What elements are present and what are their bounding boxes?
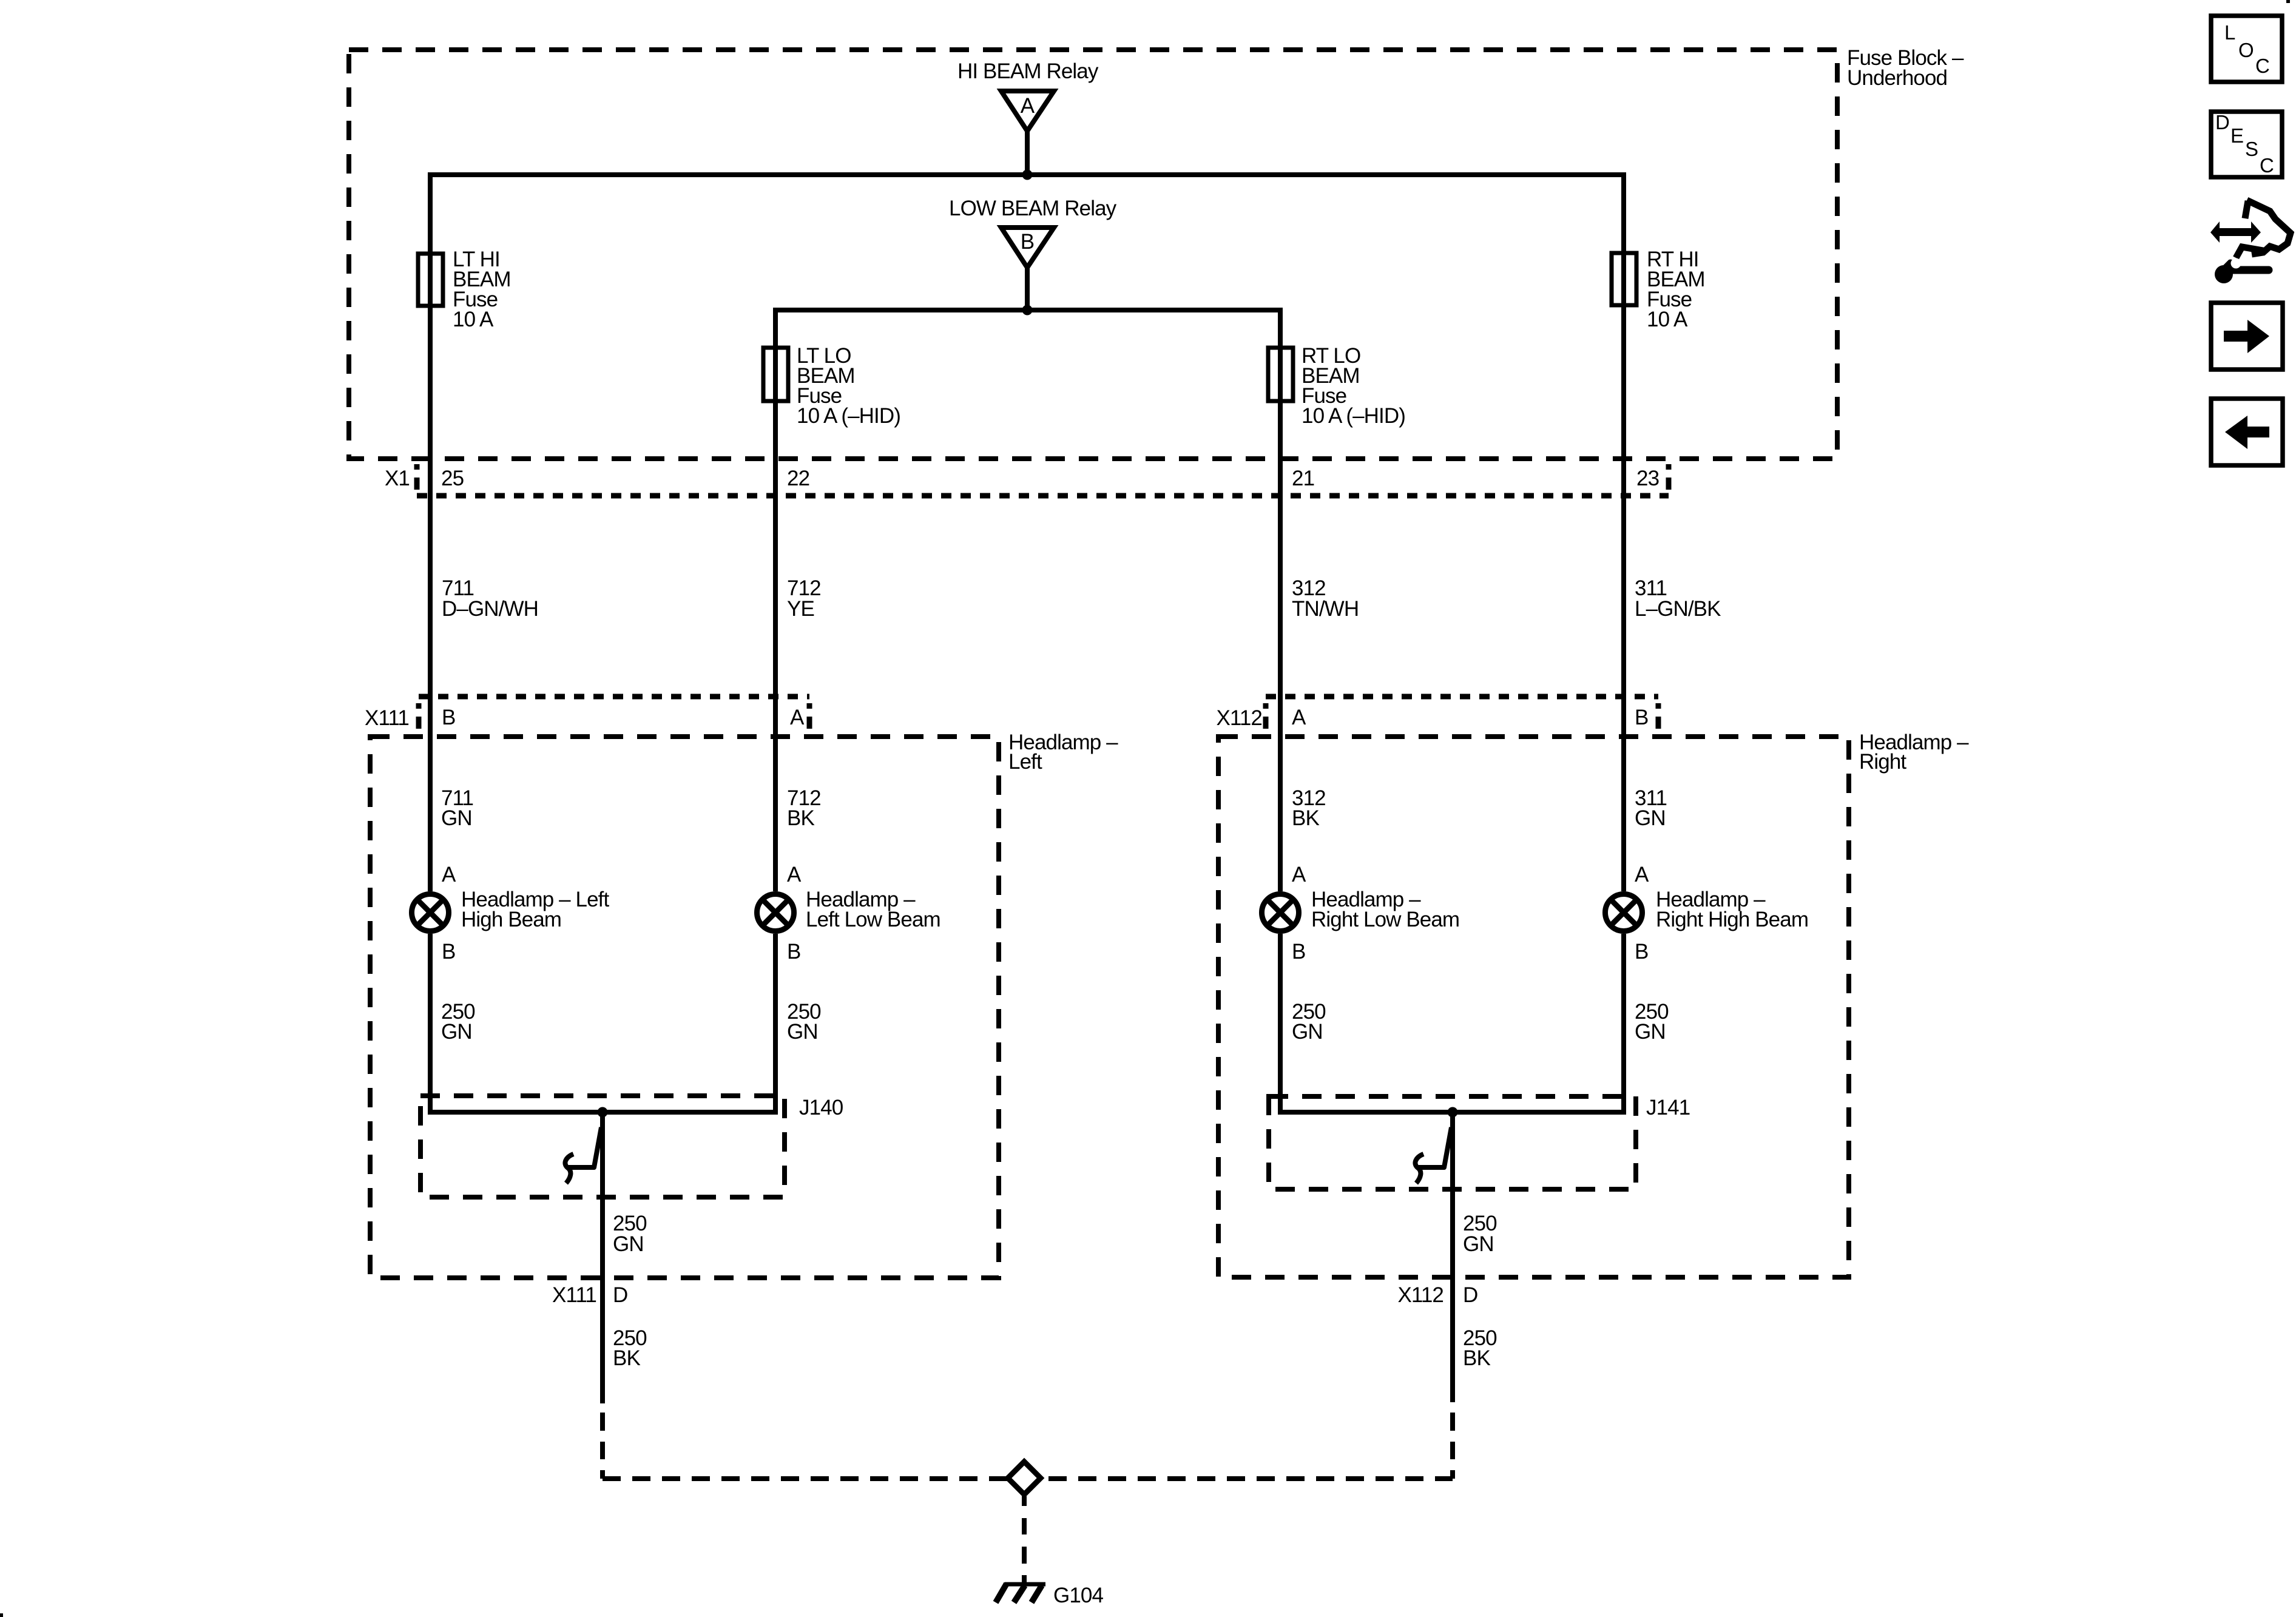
artifact dot top right [2286, 0, 2290, 3]
svg-text:D–GN/WH: D–GN/WH [442, 597, 538, 621]
svg-text:Right Low Beam: Right Low Beam [1311, 908, 1459, 931]
fuse LT LO BEAM [763, 344, 900, 428]
wire label 712 BK [787, 786, 821, 830]
svg-text:BK: BK [787, 806, 814, 830]
node G104 diamond [1008, 1462, 1041, 1494]
svg-text:B: B [787, 940, 800, 964]
connector X1 [385, 464, 1669, 496]
svg-text:Left: Left [1008, 750, 1042, 774]
lamp headlamp left low beam [757, 888, 940, 931]
icon LOC box [2211, 16, 2282, 82]
svg-text:GN: GN [441, 1020, 472, 1044]
relay A HI BEAM [957, 59, 1099, 131]
wire 712 fuse feed left vertical [773, 308, 778, 891]
headlamp left label [1008, 731, 1118, 774]
headlamp left dashed box [370, 737, 999, 1278]
svg-text:B: B [1292, 940, 1305, 964]
svg-text:HI BEAM Relay: HI BEAM Relay [957, 59, 1099, 83]
fuse RT HI BEAM [1612, 248, 1705, 331]
wire label 712 YE [787, 576, 821, 621]
svg-text:22: 22 [787, 467, 809, 490]
svg-text:Left Low Beam: Left Low Beam [806, 908, 940, 931]
icon DESC box [2211, 111, 2282, 177]
svg-text:25: 25 [441, 467, 464, 490]
svg-text:Underhood: Underhood [1847, 66, 1947, 90]
splice clip J141 [1419, 1127, 1451, 1167]
svg-text:LOW BEAM Relay: LOW BEAM Relay [949, 197, 1117, 220]
artifact dot bottom left [0, 1613, 3, 1617]
svg-text:X1: X1 [385, 467, 410, 490]
svg-text:BK: BK [613, 1346, 640, 1370]
svg-text:BK: BK [1292, 806, 1319, 830]
svg-text:B: B [1635, 940, 1648, 964]
relay B LOW BEAM [949, 197, 1117, 268]
svg-text:B: B [442, 706, 455, 729]
svg-text:S: S [2245, 138, 2258, 160]
headlamp right dashed box [1218, 737, 1849, 1277]
wire label 250 GN lamp1 [441, 1000, 475, 1044]
wire J141 down [1450, 1112, 1455, 1402]
wire 711 fuse feed left vertical [428, 172, 433, 891]
splice J141 dashed box [1269, 1096, 1636, 1189]
lamp headlamp right low beam [1262, 888, 1460, 931]
wire 312 fuse feed right vertical [1278, 308, 1283, 891]
wire relay A stem [1025, 131, 1030, 175]
junction A [1022, 170, 1033, 180]
svg-text:Right High Beam: Right High Beam [1656, 908, 1808, 931]
wire J141 bus [1280, 1110, 1624, 1115]
svg-text:23: 23 [1636, 467, 1659, 490]
wire lamp1 return [428, 934, 433, 1115]
svg-text:A: A [1021, 94, 1035, 118]
svg-text:21: 21 [1292, 467, 1314, 490]
lamp headlamp right high beam [1606, 888, 1809, 931]
svg-text:GN: GN [613, 1232, 644, 1256]
wire ground drop dashed [1022, 1496, 1027, 1584]
icon arrow right box [2211, 303, 2283, 370]
svg-text:A: A [787, 863, 802, 886]
wire 311 fuse feed right vertical [1621, 172, 1626, 891]
splice clip J140 [569, 1127, 601, 1167]
wire J140 bus [430, 1110, 775, 1115]
junction J140 [598, 1107, 608, 1118]
connector X111 [365, 697, 809, 730]
icon arrow left box [2211, 399, 2283, 465]
high beam bus wire [428, 172, 1626, 177]
wire ground dashed left [600, 1413, 605, 1479]
svg-text:L: L [2224, 21, 2235, 44]
wire ground bus dashed [603, 1476, 1453, 1481]
svg-text:X112: X112 [1397, 1283, 1443, 1307]
svg-text:GN: GN [1635, 1020, 1666, 1044]
wire label 312 BK [1292, 786, 1326, 830]
svg-text:GN: GN [1292, 1020, 1323, 1044]
svg-text:GN: GN [1635, 806, 1666, 830]
svg-text:A: A [442, 863, 456, 886]
svg-text:A: A [1292, 863, 1306, 886]
svg-text:O: O [2238, 39, 2254, 61]
svg-text:D: D [1463, 1283, 1477, 1307]
wire label 250 GN lamp3 [1292, 1000, 1326, 1044]
svg-text:A: A [1635, 863, 1649, 886]
junction B [1022, 305, 1033, 316]
connector X112 [1216, 697, 1658, 730]
svg-text:YE: YE [787, 597, 814, 621]
wire label 250 GN lamp2 [787, 1000, 821, 1044]
wire label 711 GN [441, 786, 473, 830]
fuse RT LO BEAM [1268, 344, 1405, 428]
svg-text:A: A [790, 706, 805, 729]
svg-text:10 A (–HID): 10 A (–HID) [1302, 404, 1405, 428]
fuse LT HI BEAM [418, 248, 511, 331]
svg-text:X111: X111 [365, 706, 409, 730]
wire label 250 GN right ground [1463, 1212, 1497, 1256]
svg-text:GN: GN [1463, 1232, 1494, 1256]
wire ground dashed right [1450, 1413, 1455, 1479]
svg-text:A: A [1292, 706, 1306, 729]
svg-text:10 A: 10 A [453, 308, 494, 331]
svg-text:B: B [1635, 706, 1648, 729]
svg-text:10 A (–HID): 10 A (–HID) [797, 404, 900, 428]
svg-text:B: B [442, 940, 455, 964]
svg-text:L–GN/BK: L–GN/BK [1635, 597, 1721, 621]
svg-text:C: C [2260, 154, 2274, 177]
svg-text:X111: X111 [552, 1283, 596, 1307]
wire label 312 TN/WH [1292, 576, 1359, 621]
svg-text:G104: G104 [1053, 1584, 1103, 1607]
svg-text:TN/WH: TN/WH [1292, 597, 1359, 621]
wire label 250 GN left ground [613, 1212, 647, 1256]
wire label 250 BK left [613, 1326, 647, 1370]
wire label 711 D-GN/WH [442, 576, 538, 621]
icon adjust hand wrench [2210, 200, 2291, 283]
fuse block label [1847, 46, 1964, 90]
wire J140 down [600, 1112, 605, 1403]
low beam bus wire [773, 308, 1283, 312]
lamp headlamp left high beam [412, 888, 610, 931]
connector X111 D row [552, 1283, 627, 1307]
wire relay B stem [1025, 268, 1030, 310]
wire label 311 GN [1635, 786, 1667, 830]
fuse block - underhood dashed box [349, 50, 1837, 459]
svg-text:C: C [2255, 55, 2269, 77]
wire label 311 L-GN/BK [1635, 576, 1721, 621]
svg-text:10 A: 10 A [1647, 308, 1688, 331]
connector X112 D row [1397, 1283, 1477, 1307]
svg-text:J140: J140 [799, 1096, 843, 1119]
splice J140 dashed box [420, 1096, 785, 1197]
headlamp right label [1859, 731, 1969, 774]
svg-text:J141: J141 [1646, 1096, 1690, 1119]
svg-text:Right: Right [1859, 750, 1906, 774]
wire lamp2 return [773, 934, 778, 1115]
svg-text:D: D [613, 1283, 627, 1307]
svg-text:BK: BK [1463, 1346, 1490, 1370]
wire label 250 GN lamp4 [1635, 1000, 1669, 1044]
svg-text:X112: X112 [1216, 706, 1262, 730]
wire lamp3 return [1278, 934, 1283, 1115]
svg-text:GN: GN [441, 806, 472, 830]
junction J141 [1448, 1107, 1458, 1118]
svg-text:High Beam: High Beam [461, 908, 561, 931]
svg-text:GN: GN [787, 1020, 818, 1044]
ground symbol G104 [996, 1584, 1103, 1607]
wire label 250 BK right [1463, 1326, 1497, 1370]
svg-text:B: B [1021, 230, 1034, 254]
svg-text:D: D [2215, 111, 2229, 133]
wire lamp4 return [1621, 934, 1626, 1115]
svg-text:E: E [2230, 124, 2243, 147]
